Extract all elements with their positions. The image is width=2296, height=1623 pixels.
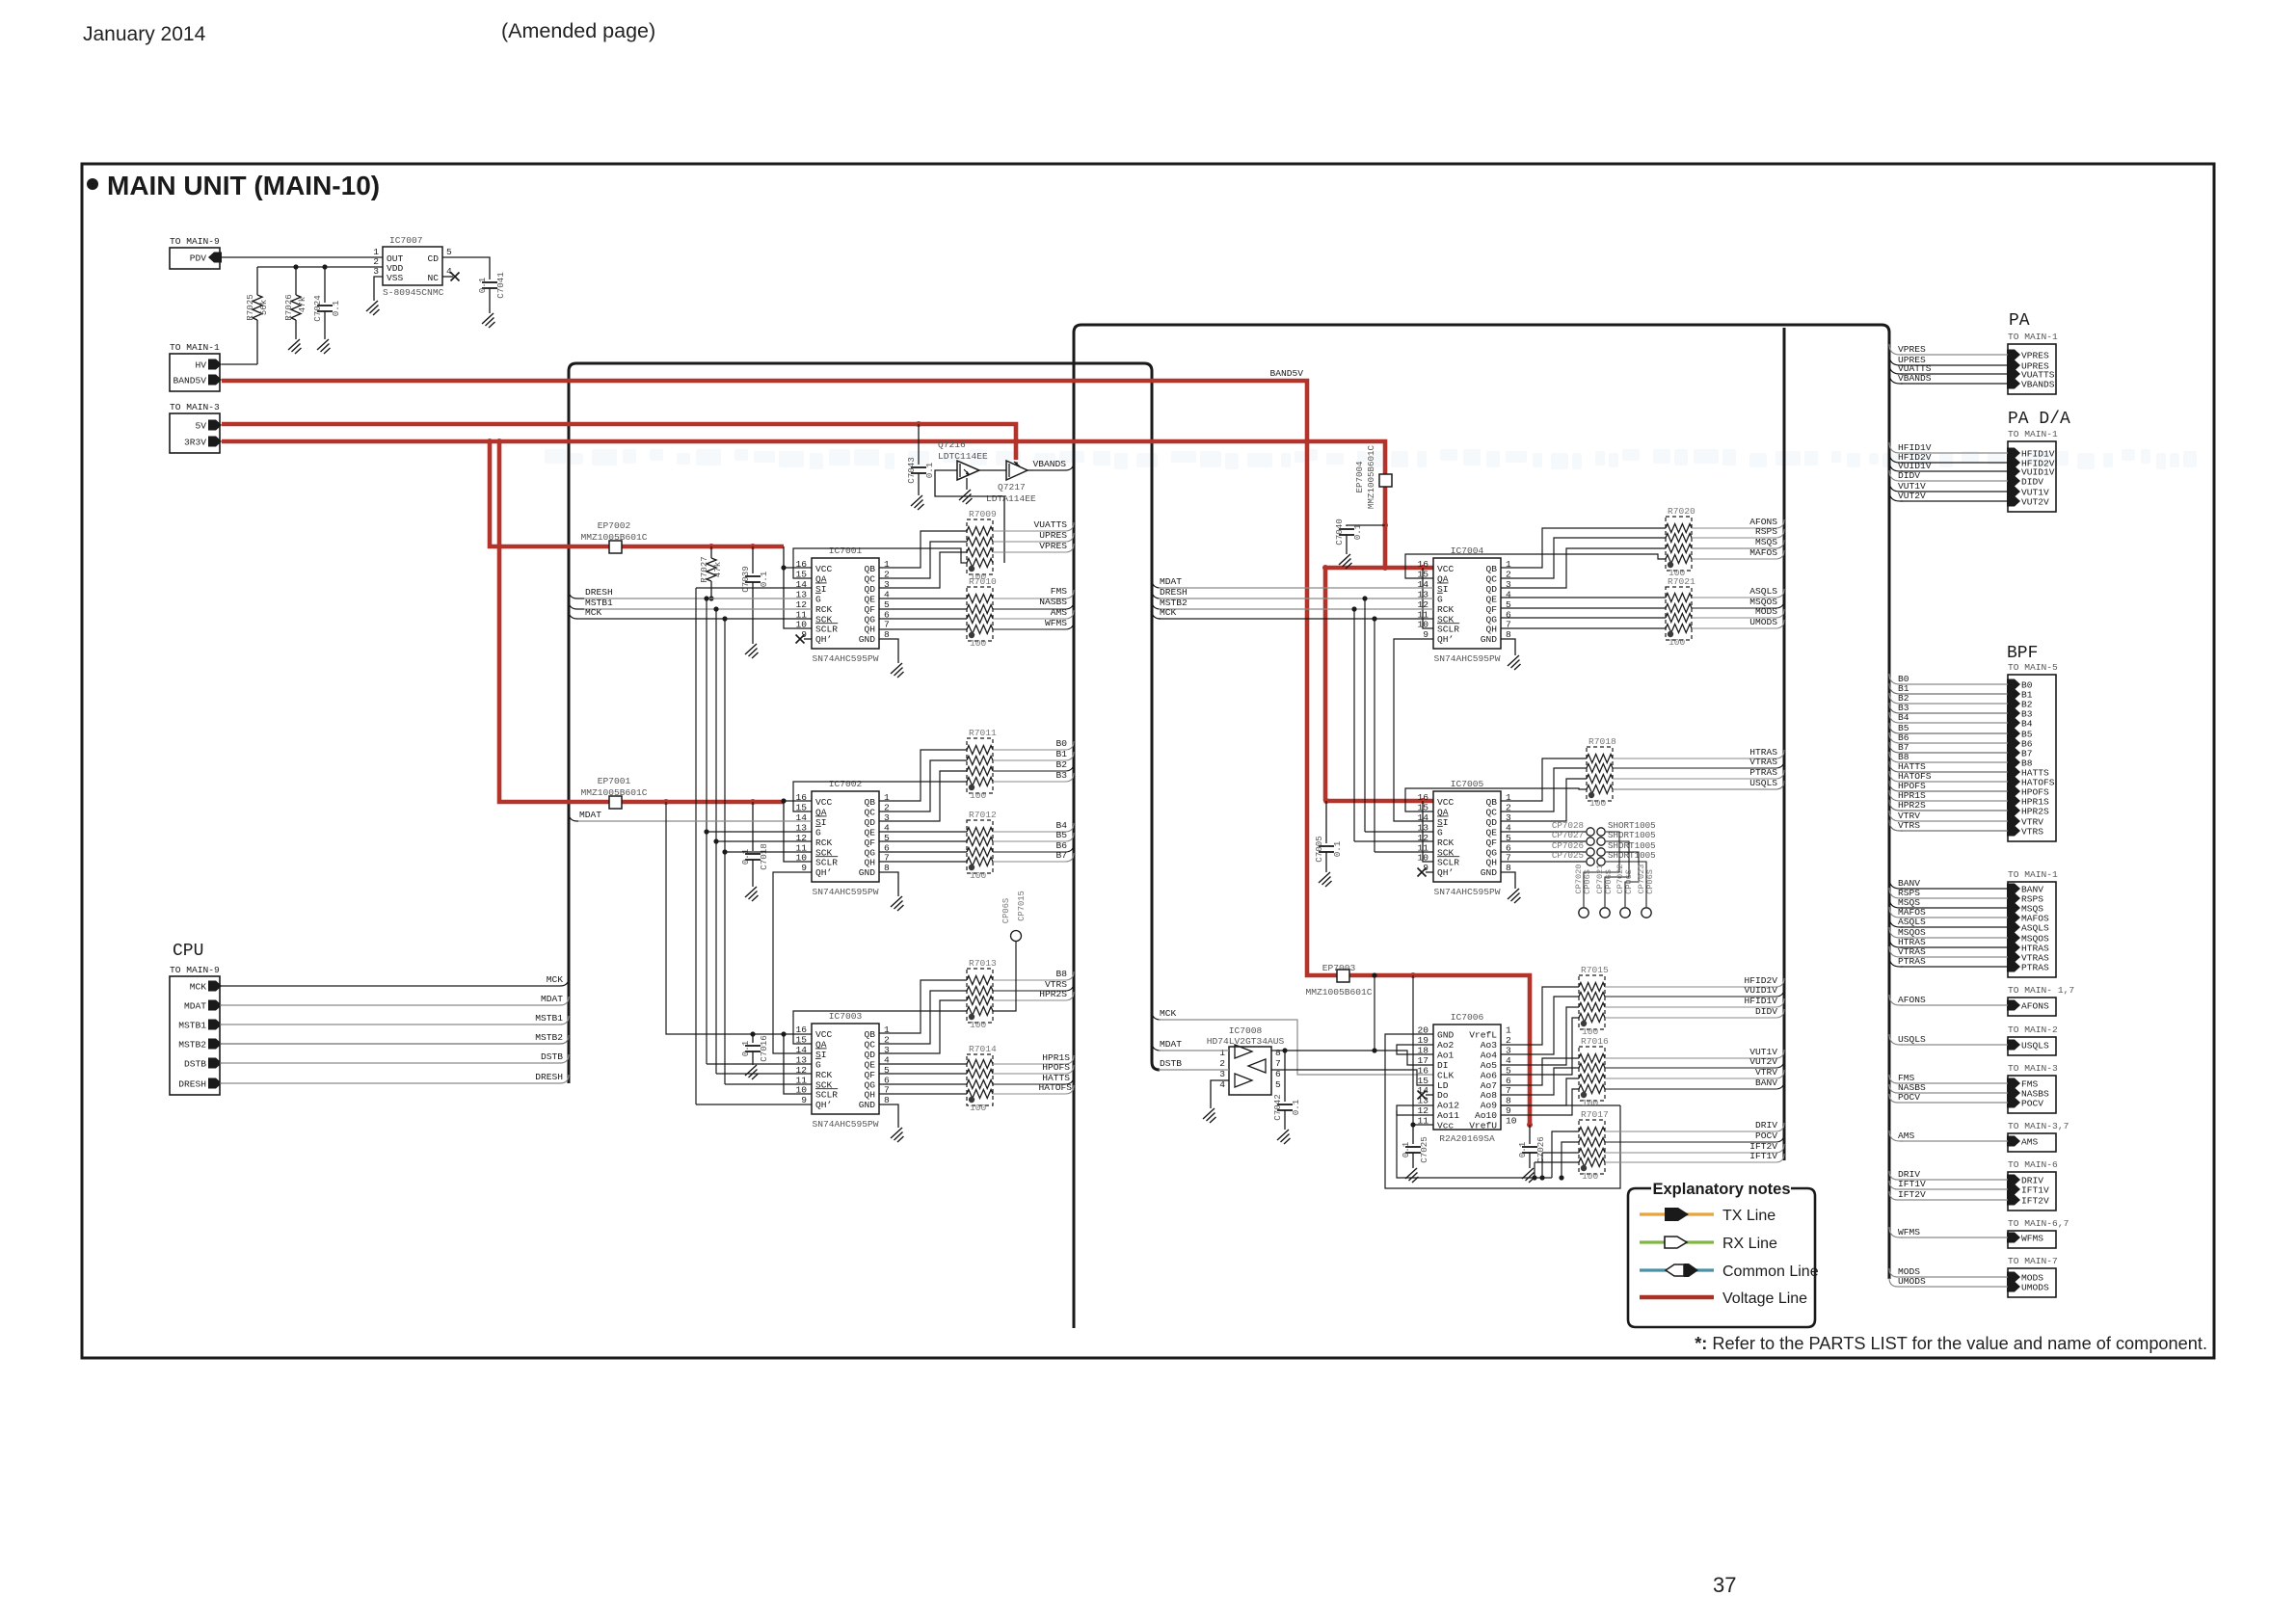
svg-text:POCV: POCV — [2021, 1099, 2043, 1109]
svg-text:MSTB2: MSTB2 — [178, 1040, 206, 1051]
faint print-through band (decorative) — [545, 449, 2197, 469]
svg-text:Ao1: Ao1 — [1437, 1050, 1455, 1060]
resistor network R7017 — [1579, 1109, 1609, 1182]
svg-text:PTRAS: PTRAS — [1749, 767, 1777, 778]
svg-text:VUT2V: VUT2V — [1749, 1056, 1777, 1067]
output B3 — [993, 781, 1033, 783]
svg-text:HPR2S: HPR2S — [2021, 807, 2049, 817]
wire UMODS stub — [1889, 1278, 1901, 1287]
wire PDV to IC7007 pin1 — [220, 256, 383, 258]
capacitor C7026 0.1 — [1527, 1122, 1533, 1128]
svg-text:MDAT: MDAT — [541, 994, 563, 1004]
svg-text:MDAT: MDAT — [1160, 576, 1182, 587]
wire 3R3V branch to EP7002 rail — [490, 441, 784, 546]
svg-text:R7027: R7027 — [699, 556, 709, 583]
output POCV — [1605, 1141, 1743, 1143]
svg-text:QF: QF — [864, 604, 875, 615]
IC7001 shift register — [795, 545, 890, 664]
svg-text:7: 7 — [884, 620, 890, 630]
svg-text:TO MAIN-1: TO MAIN-1 — [2008, 332, 2058, 342]
svg-text:QH’: QH’ — [815, 1100, 832, 1110]
svg-text:Q7216: Q7216 — [938, 439, 966, 450]
svg-text:AMS: AMS — [2021, 1137, 2039, 1148]
svg-text:R7011: R7011 — [969, 728, 997, 738]
output UMODS — [1692, 627, 1743, 629]
svg-text:QD: QD — [864, 817, 875, 828]
svg-text:CP7027: CP7027 — [1552, 830, 1584, 840]
svg-text:QG: QG — [864, 614, 875, 625]
svg-text:QB: QB — [1485, 797, 1497, 808]
svg-text:QE: QE — [864, 1059, 875, 1070]
svg-text:FMS: FMS — [1051, 586, 1068, 597]
ground R7026 — [288, 339, 302, 354]
svg-text:IFT1V: IFT1V — [1749, 1151, 1777, 1161]
svg-text:MDAT: MDAT — [1160, 1039, 1182, 1050]
ground Q7216 — [959, 490, 973, 504]
wire Vcc feed IC7006 — [1410, 972, 1416, 978]
svg-text:5: 5 — [884, 599, 890, 610]
output DRIV — [1605, 1131, 1743, 1132]
svg-text:0.1: 0.1 — [759, 571, 769, 587]
IC7008 buffer HD74LV2GT34AUS — [1207, 1025, 1285, 1095]
legend Voltage Line — [1640, 1290, 1807, 1307]
output B2 — [993, 770, 1033, 772]
wire VPRES stub to PA connector — [1889, 344, 1903, 355]
junction dots VDD rail — [293, 264, 298, 269]
wire QH apostrophe IC7003 feedback — [696, 1104, 812, 1105]
svg-text:R7009: R7009 — [969, 509, 997, 519]
svg-text:17: 17 — [1417, 1055, 1428, 1066]
svg-text:SN74AHC595PW: SN74AHC595PW — [812, 887, 878, 897]
svg-text:IC7001: IC7001 — [829, 545, 863, 556]
svg-text:QD: QD — [1485, 817, 1497, 828]
wire HATTS stub to BPF connector — [1889, 761, 1903, 772]
ground C7039 — [745, 644, 759, 658]
svg-text:100: 100 — [1582, 1171, 1599, 1182]
transistor Q7216 LDTC114EE — [938, 439, 988, 480]
svg-text:SCLR: SCLR — [1437, 625, 1459, 635]
svg-text:100: 100 — [1669, 637, 1686, 648]
wire HPR2S stub to BPF connector — [1889, 800, 1903, 811]
wire VTRV stub to BPF connector — [1889, 811, 1903, 821]
output ASQLS — [1692, 597, 1743, 599]
svg-text:16: 16 — [1417, 1065, 1428, 1076]
svg-text:4: 4 — [1506, 589, 1511, 599]
output HATOFS — [993, 1093, 1039, 1095]
input stub MDAT to IC7002 SI — [569, 812, 578, 821]
wire 5V voltage line — [222, 424, 1016, 460]
svg-text:RCK: RCK — [1437, 604, 1455, 615]
svg-text:100: 100 — [1582, 1098, 1599, 1108]
svg-text:*: Refer to the PARTS LIST for: *: Refer to the PARTS LIST for the value… — [1695, 1334, 2207, 1353]
svg-text:MSTB1: MSTB1 — [535, 1013, 563, 1024]
svg-text:C7041: C7041 — [495, 272, 506, 299]
wire B8 stub to BPF connector — [1889, 752, 1903, 762]
wire B5 stub to BPF connector — [1889, 723, 1903, 733]
output B4 — [993, 831, 1033, 833]
svg-text:CP06S: CP06S — [1624, 869, 1634, 894]
svg-text:CLK: CLK — [1437, 1070, 1455, 1080]
svg-text:TO MAIN-9: TO MAIN-9 — [170, 965, 220, 975]
wire BANV stub — [1889, 878, 1903, 889]
svg-text:HFID1V: HFID1V — [1744, 996, 1777, 1006]
output HFID2V — [1605, 986, 1743, 988]
capacitor C7039 0.1 — [750, 544, 756, 549]
svg-text:HV: HV — [195, 360, 206, 371]
capacitor C7042 0.1 — [1284, 1051, 1286, 1102]
svg-text:ASQLS: ASQLS — [1898, 917, 1926, 927]
svg-text:C7018: C7018 — [759, 843, 769, 870]
wire QH apostrophe IC7002 cascade to IC7003 SI — [773, 872, 812, 1053]
wire MSTB2 from CPU to bus — [220, 1043, 551, 1045]
svg-text:QD: QD — [1485, 584, 1497, 595]
wire MDAT chain vertical — [1374, 975, 1375, 1051]
svg-text:0.1: 0.1 — [1517, 1141, 1528, 1157]
wire B4 stub to BPF connector — [1889, 712, 1903, 723]
svg-text:AMS: AMS — [1051, 607, 1068, 618]
wire VDD rail — [257, 266, 383, 268]
svg-text:10: 10 — [1417, 620, 1428, 630]
IC7005 shift register — [1417, 779, 1511, 897]
ground C7025 — [1405, 1168, 1419, 1183]
wire SCLR tie IC7005 — [1420, 798, 1426, 804]
svg-text:4: 4 — [1506, 1055, 1511, 1066]
svg-text:VPRES: VPRES — [1039, 541, 1067, 551]
svg-text:C7040: C7040 — [1334, 519, 1345, 545]
jumper CP7027 SHORT1005 — [1501, 830, 1656, 845]
connector TO MAIN-7 MODS UMODS — [2007, 1256, 2058, 1297]
svg-text:MAIN UNIT (MAIN-10): MAIN UNIT (MAIN-10) — [107, 171, 380, 200]
svg-text:DIDV: DIDV — [1898, 470, 1920, 481]
output B1 — [993, 759, 1033, 761]
junction dots on 3R3V line — [487, 439, 493, 444]
svg-text:G: G — [815, 1059, 821, 1070]
svg-text:MCK: MCK — [585, 607, 602, 618]
svg-text:IC7002: IC7002 — [829, 779, 863, 789]
wire GND IC7004 — [1501, 639, 1515, 655]
wire BAND5V voltage line — [222, 381, 1530, 1125]
svg-text:TO MAIN-3: TO MAIN-3 — [170, 402, 220, 412]
svg-text:RCK: RCK — [815, 838, 833, 848]
resistor network R7016 — [1579, 1036, 1609, 1108]
svg-text:QE: QE — [1485, 827, 1497, 838]
legend explanatory notes box — [1628, 1181, 1815, 1327]
output B6 — [993, 851, 1033, 853]
svg-text:TO MAIN-5: TO MAIN-5 — [2008, 662, 2058, 673]
output AMS — [993, 618, 1033, 620]
svg-text:14: 14 — [795, 1045, 807, 1055]
output AFONS — [1692, 527, 1743, 529]
svg-text:B0: B0 — [1055, 738, 1067, 749]
wire SCLR tie IC7004 — [1420, 565, 1426, 571]
svg-text:B2: B2 — [1055, 759, 1067, 770]
svg-text:10: 10 — [1417, 853, 1428, 864]
svg-text:QF: QF — [1485, 838, 1497, 848]
svg-text:16: 16 — [795, 559, 807, 570]
svg-text:Explanatory notes: Explanatory notes — [1652, 1181, 1790, 1198]
connector TO MAIN-2 USQLS — [2007, 1024, 2058, 1055]
wire VSS pin3 down to ground — [374, 277, 383, 301]
ground IC7005 — [1508, 889, 1521, 903]
wire HPOFS stub to BPF connector — [1889, 781, 1903, 791]
svg-text:GND: GND — [859, 1100, 876, 1110]
output IFT2V — [1605, 1152, 1743, 1154]
wire Q7216 emitter to ground — [966, 478, 968, 490]
svg-text:January 2014: January 2014 — [83, 23, 206, 45]
input wires G RCK SCK IC7005 — [1365, 831, 1433, 833]
svg-text:USQLS: USQLS — [1898, 1034, 1926, 1045]
svg-text:5: 5 — [446, 247, 452, 257]
svg-text:QH’: QH’ — [815, 867, 832, 878]
no-connect QH apostrophe IC7001 — [804, 638, 812, 640]
svg-text:Ao12: Ao12 — [1437, 1101, 1459, 1111]
stair wires IC7003 QB QC QD to R7013 — [879, 980, 967, 1033]
wire VUATTS stub to PA connector — [1889, 363, 1903, 374]
capacitor C7018 0.1 — [750, 799, 756, 805]
wire VBANDS from Q7217 to bus — [1028, 469, 1033, 471]
svg-text:R7013: R7013 — [969, 958, 997, 969]
wire GND IC7001 — [879, 639, 898, 663]
svg-text:Ao5: Ao5 — [1481, 1060, 1498, 1071]
wire USQLS stub — [1889, 1034, 1903, 1045]
svg-text:R2A20169SA: R2A20169SA — [1439, 1133, 1495, 1144]
wire HFID1V stub to PA D/A connector — [1889, 442, 1903, 453]
svg-text:0.1: 0.1 — [740, 1040, 751, 1056]
svg-text:B4: B4 — [1898, 712, 1909, 723]
svg-text:QC: QC — [1485, 807, 1497, 817]
svg-text:VBANDS: VBANDS — [2021, 380, 2055, 390]
svg-text:QE: QE — [864, 594, 875, 604]
legend TX Line — [1640, 1208, 1775, 1224]
svg-text:5V: 5V — [195, 421, 206, 432]
transistor Q7217 LDTA114EE — [986, 461, 1036, 504]
ground IC7002 — [891, 896, 904, 911]
wire HTRAS stub — [1889, 937, 1903, 947]
svg-text:SCLR: SCLR — [815, 625, 838, 635]
ground IC7001 — [891, 663, 904, 678]
output USQLS — [1613, 788, 1743, 790]
svg-text:VUATTS: VUATTS — [1033, 519, 1067, 530]
svg-text:RCK: RCK — [1437, 838, 1455, 848]
ground C7041 — [482, 313, 495, 328]
resistor network R7011 — [967, 728, 997, 801]
svg-text:QF: QF — [1485, 604, 1497, 615]
jumper CP7025 SHORT1005 — [1501, 850, 1656, 865]
svg-text:SCLR: SCLR — [815, 1090, 838, 1101]
resistor network R7020 — [1666, 506, 1695, 578]
svg-text:BPF: BPF — [2007, 644, 2038, 663]
junction dots IC7004 inputs — [1362, 596, 1367, 600]
svg-text:TO MAIN-1: TO MAIN-1 — [2008, 869, 2058, 880]
svg-text:HPOFS: HPOFS — [1042, 1062, 1070, 1073]
wire DRESH from CPU to bus — [220, 1082, 551, 1084]
wire B7 stub to BPF connector — [1889, 742, 1903, 753]
svg-text:IC7005: IC7005 — [1451, 779, 1484, 789]
svg-text:56k: 56k — [258, 299, 269, 315]
input wires R7017 — [1552, 1131, 1579, 1178]
input stub DSTB to IC7008 — [1152, 1061, 1161, 1070]
svg-text:Ao11: Ao11 — [1437, 1110, 1459, 1121]
svg-text:R7015: R7015 — [1581, 965, 1609, 975]
wires QE-QH IC7003 to R7014 — [879, 1063, 967, 1065]
svg-text:MDAT: MDAT — [184, 1001, 206, 1012]
svg-text:R7014: R7014 — [969, 1044, 997, 1054]
wire GND IC7002 — [879, 872, 898, 896]
svg-text:PA: PA — [2009, 311, 2030, 331]
legend RX Line — [1640, 1236, 1777, 1252]
svg-text:3R3V: 3R3V — [184, 438, 206, 448]
connector TO MAIN-3 FMS NASBS POCV — [2007, 1063, 2058, 1113]
svg-text:UMODS: UMODS — [1898, 1276, 1926, 1287]
svg-text:MMZ1005B601C: MMZ1005B601C — [1366, 444, 1376, 509]
connector PA TO MAIN-1 — [2007, 332, 2058, 394]
svg-text:6: 6 — [1275, 1069, 1281, 1079]
wire IC7008 out to IC7006 LD — [1271, 1070, 1433, 1085]
output VTRV — [1605, 1078, 1743, 1079]
svg-text:QH: QH — [1485, 858, 1497, 868]
svg-text:TO MAIN-3,7: TO MAIN-3,7 — [2008, 1121, 2069, 1131]
IC7003 shift register — [795, 1011, 890, 1130]
output VUATTS — [993, 530, 1033, 532]
svg-text:CD: CD — [427, 253, 439, 264]
output BANV — [1605, 1088, 1743, 1090]
svg-text:R7018: R7018 — [1589, 736, 1616, 747]
svg-text:12: 12 — [795, 599, 807, 610]
svg-text:NASBS: NASBS — [1039, 597, 1067, 607]
wire HATOFS stub to BPF connector — [1889, 771, 1903, 782]
svg-text:VTRS: VTRS — [1898, 820, 1920, 831]
svg-text:4: 4 — [446, 266, 452, 277]
svg-text:QG: QG — [864, 1079, 875, 1090]
svg-text:Ao6: Ao6 — [1481, 1070, 1498, 1080]
resistor R7027 47k pull-up — [699, 544, 723, 601]
wire GND loop IC7006 — [1385, 1034, 1620, 1188]
svg-text:TO MAIN-7: TO MAIN-7 — [2008, 1256, 2058, 1266]
svg-text:IC7007: IC7007 — [389, 235, 423, 246]
resistor network R7012 — [967, 810, 997, 881]
svg-text:SN74AHC595PW: SN74AHC595PW — [1433, 653, 1500, 664]
svg-text:AFONS: AFONS — [2021, 1001, 2049, 1012]
svg-text:R7025: R7025 — [245, 294, 255, 321]
output VUT1V — [1605, 1057, 1743, 1059]
svg-text:IFT2V: IFT2V — [1898, 1189, 1926, 1200]
jumper CP7026 SHORT1005 — [1501, 840, 1656, 856]
svg-text:Vcc: Vcc — [1437, 1121, 1455, 1131]
wire MSQOS stub — [1889, 927, 1903, 938]
input wires G RCK SCK IC7003 — [707, 1063, 812, 1065]
capacitor C7005 0.1 — [1323, 798, 1329, 804]
ground C7024 — [317, 339, 331, 354]
connector TO MAIN-9 (PDV) — [170, 236, 222, 269]
legend Common Line — [1640, 1264, 1819, 1280]
svg-text:G: G — [815, 594, 821, 604]
svg-text:MODS: MODS — [1755, 606, 1777, 617]
svg-text:16: 16 — [1417, 559, 1428, 570]
IC7007 voltage detector — [373, 235, 452, 298]
input stub MCK to IC7006 CLK — [1152, 1011, 1161, 1020]
svg-text:CP7015: CP7015 — [1017, 891, 1027, 921]
svg-text:GND: GND — [1481, 867, 1498, 878]
svg-text:TX Line: TX Line — [1722, 1208, 1775, 1224]
svg-text:VCC: VCC — [815, 1029, 833, 1040]
svg-text:EP7001: EP7001 — [598, 776, 631, 786]
resistor R7025 56k — [245, 267, 269, 364]
svg-text:QB: QB — [864, 1029, 875, 1040]
wire B2 stub to BPF connector — [1889, 693, 1903, 704]
wire QA IC7004 to R7020 row4 — [1405, 554, 1666, 578]
svg-text:100: 100 — [970, 1020, 987, 1030]
svg-text:QD: QD — [864, 584, 875, 595]
svg-text:R7010: R7010 — [969, 576, 997, 587]
svg-text:VSS: VSS — [387, 273, 404, 283]
wire B1 stub to BPF connector — [1889, 683, 1903, 694]
wire bus: CPU serial bus vertical x=590 up to horizontal y=377 over to x=1195 down — [569, 363, 1160, 1083]
svg-text:IC7006: IC7006 — [1451, 1012, 1484, 1023]
output WFMS — [993, 628, 1033, 630]
svg-text:TO MAIN- 1,7: TO MAIN- 1,7 — [2008, 985, 2074, 996]
svg-text:QE: QE — [864, 827, 875, 838]
svg-text:MSTB1: MSTB1 — [178, 1021, 206, 1031]
svg-text:100: 100 — [970, 1103, 987, 1113]
svg-text:IC7003: IC7003 — [829, 1011, 863, 1022]
svg-text:UMODS: UMODS — [1749, 617, 1777, 627]
wire VUT2V stub to PA D/A connector — [1889, 491, 1903, 501]
wire HV to R7025 — [222, 363, 257, 365]
ground C7016 — [745, 1065, 759, 1079]
wire SCLR tie IC7003 — [781, 1031, 786, 1036]
svg-text:VTRS: VTRS — [2021, 827, 2043, 838]
svg-text:10: 10 — [795, 853, 807, 864]
svg-text:ASQLS: ASQLS — [2021, 923, 2049, 934]
svg-text:QH’: QH’ — [815, 634, 832, 645]
capacitor C7016 0.1 — [750, 1031, 755, 1036]
capacitor C7043 0.1 on 5V — [916, 421, 921, 427]
svg-text:B4: B4 — [2021, 719, 2033, 730]
connector PA D/A TO MAIN-1 — [2007, 429, 2058, 512]
output HPR1S — [993, 1063, 1039, 1065]
svg-text:GND: GND — [859, 867, 876, 878]
svg-text:TO MAIN-3: TO MAIN-3 — [2008, 1063, 2058, 1074]
output B0 — [993, 749, 1033, 751]
svg-text:GND: GND — [859, 634, 876, 645]
wire B3 stub to BPF connector — [1889, 703, 1903, 713]
svg-text:R7016: R7016 — [1581, 1036, 1609, 1047]
svg-text:TO MAIN-9: TO MAIN-9 — [170, 236, 220, 247]
output HPOFS — [993, 1073, 1039, 1075]
svg-text:R7021: R7021 — [1668, 576, 1695, 587]
svg-text:0.1: 0.1 — [1401, 1141, 1411, 1157]
ground C7026 — [1522, 1168, 1535, 1183]
wire AFONS stub — [1889, 995, 1903, 1005]
svg-text:HPR2S: HPR2S — [1898, 800, 1926, 811]
ground IC7004 — [1508, 655, 1521, 670]
output UPRES — [993, 541, 1033, 543]
svg-text:2: 2 — [1506, 1035, 1511, 1046]
svg-text:MSQS: MSQS — [1755, 537, 1777, 547]
svg-text:16: 16 — [795, 792, 807, 803]
svg-text:SN74AHC595PW: SN74AHC595PW — [1433, 887, 1500, 897]
ferrite bead EP7001 MMZ1005B601C — [580, 776, 647, 809]
svg-text:POCV: POCV — [1755, 1131, 1777, 1141]
ground IC7008 — [1203, 1108, 1216, 1123]
input stub MSTB1 to IC7001 RCK — [569, 600, 584, 609]
wire MAFOS stub — [1889, 907, 1903, 918]
output RSPS — [1692, 537, 1743, 539]
svg-text:B5: B5 — [1055, 830, 1067, 840]
distribution verticals to IC7002/IC7003 — [695, 588, 697, 1104]
wire DRIV stub — [1889, 1171, 1901, 1180]
svg-text:DRIV: DRIV — [1755, 1120, 1777, 1131]
